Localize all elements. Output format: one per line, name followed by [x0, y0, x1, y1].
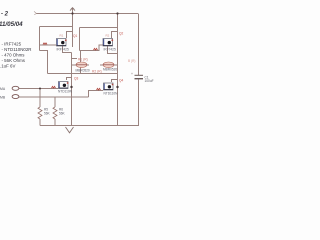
svg-text:56K: 56K — [59, 112, 66, 116]
svg-text:- 56K Ohms: - 56K Ohms — [2, 58, 26, 63]
wire input line2 y97 — [20, 96, 89, 98]
svg-text:R2: R2 — [106, 34, 110, 38]
wire R5 bottom lead — [39, 119, 41, 126]
wire net stub y58 — [72, 58, 78, 60]
svg-text:+: + — [131, 72, 133, 76]
svg-text:11/05/04: 11/05/04 — [0, 21, 23, 28]
svg-text:NTD110N: NTD110N — [58, 90, 73, 94]
svg-text:- 470 Ohms: - 470 Ohms — [2, 53, 26, 58]
svg-text:MA: MA — [0, 87, 6, 91]
svg-text:R1 (R): R1 (R) — [78, 58, 88, 62]
svg-text:- 2: - 2 — [1, 12, 9, 18]
ground symbol — [66, 127, 74, 133]
wire diode2 right stub — [114, 64, 118, 66]
resistor tick gate3 R3 — [52, 86, 56, 88]
svg-text:MBR0520: MBR0520 — [103, 68, 117, 72]
svg-text:IRF7425: IRF7425 — [57, 48, 69, 52]
resistor tick gate4 R4 — [97, 88, 101, 90]
wire left supply drop x72 — [72, 14, 74, 48]
wire diode1 right stub — [87, 64, 89, 66]
wire right rail drop x117 — [117, 14, 119, 126]
wire connector A stub — [19, 88, 20, 90]
diode D1 — [76, 62, 87, 68]
wire top V+ rail — [36, 13, 138, 15]
wire Q2 drain jog — [108, 46, 118, 54]
svg-text:B (R): B (R) — [128, 59, 135, 63]
wire VCC stub — [72, 8, 74, 14]
wire Q1 drain jog — [63, 46, 72, 53]
svg-text:NTD110N: NTD110N — [104, 92, 119, 96]
svg-text:R1: R1 — [60, 34, 64, 38]
wire gate4 step — [89, 91, 104, 98]
wire gate2 horizontal — [80, 45, 104, 51]
junction V+ rail right tap — [116, 12, 118, 14]
wire gate3 input line y88 — [20, 88, 58, 90]
svg-text:- IRF7425: - IRF7425 — [2, 42, 22, 47]
wire V x80 down to y73 — [80, 51, 82, 74]
svg-text:MBR0520: MBR0520 — [76, 69, 90, 73]
connector pin A — [0, 86, 19, 91]
resistor tick gate2 R2 — [94, 48, 98, 50]
junction input A / R5 tap — [39, 88, 41, 90]
wire R5 top lead — [39, 89, 41, 108]
wire connector B stub — [19, 96, 20, 98]
wire Q1 staple — [67, 32, 73, 39]
wire R6 bottom lead — [54, 119, 56, 126]
wire H y26 left cell feed — [40, 26, 73, 28]
parts list text — [0, 42, 31, 69]
diode D2 — [103, 62, 114, 68]
svg-text:IRF7425: IRF7425 — [104, 48, 116, 52]
junction Q3 drain node — [70, 86, 72, 88]
connector pin B — [0, 95, 19, 100]
wire diode1 left stub — [72, 64, 77, 66]
wire gate1 horizontal — [40, 44, 57, 46]
wire right cap branch lower — [138, 80, 140, 126]
mosfet Q1 (P-FET) — [57, 39, 67, 47]
wire Q4 staple — [112, 80, 118, 83]
capacitor C1 — [131, 72, 154, 83]
wire long output line y73 — [48, 73, 118, 75]
mosfet Q2 (P-FET) — [103, 39, 113, 47]
wire R6 top lead — [54, 97, 56, 107]
wire ground rail — [40, 125, 139, 127]
mosfet Q4 (N-FET) — [104, 83, 114, 90]
wire Q3 staple — [67, 78, 72, 81]
svg-text:.1uF 6V: .1uF 6V — [0, 64, 15, 69]
wire V x39 left — [39, 27, 41, 51]
wire left output vertical x72 — [71, 53, 73, 126]
svg-text:MB: MB — [0, 95, 6, 99]
wire diode2 left stub — [100, 64, 103, 66]
svg-text:Q3: Q3 — [74, 77, 78, 81]
wire left jog to x47 — [40, 51, 48, 74]
svg-text:Q4: Q4 — [119, 79, 123, 83]
resistor R6 — [53, 107, 66, 119]
junction V+ rail left tap — [71, 12, 73, 14]
net arrow left end — [34, 11, 37, 14]
wire V x79 right — [79, 28, 81, 51]
mosfet Q3 (N-FET) — [59, 82, 69, 89]
svg-text:100uF: 100uF — [145, 79, 154, 83]
svg-text:Q2: Q2 — [119, 32, 123, 36]
vcc power arrow — [70, 8, 75, 11]
wire Q2 staple — [112, 32, 118, 39]
junction Q4 drain node — [116, 86, 118, 88]
svg-text:Q1: Q1 — [73, 34, 77, 38]
resistor R5 — [38, 107, 51, 119]
svg-text:56K: 56K — [44, 112, 51, 116]
svg-text:- NTD110N02R: - NTD110N02R — [2, 47, 32, 52]
resistor tick gate1 R1 — [43, 43, 47, 45]
wire H y27 right cell feed — [80, 27, 118, 29]
wire right cap branch upper — [138, 14, 140, 76]
svg-text:R2 (R): R2 (R) — [92, 70, 102, 74]
